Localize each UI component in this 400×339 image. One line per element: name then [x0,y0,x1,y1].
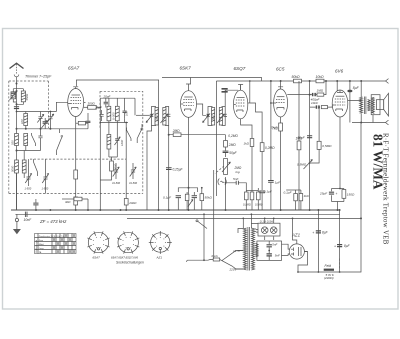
core bars [248,227,250,271]
screen network wire [178,188,197,192]
output transformer [350,81,371,123]
svg-text:Sockelschaltungen: Sockelschaltungen [116,261,144,265]
AZ1 output right [298,252,308,273]
AVC wire with 2M resistor [169,134,226,136]
resistor row AF [245,192,249,200]
wire plate tube5 top [336,81,338,91]
capacitor 400pF [312,93,316,96]
wire tube4 grid [271,102,274,104]
TA input jack [218,179,226,186]
wire osc row1 bottom [100,118,128,122]
osc padding caps [124,107,126,119]
coil secondary [163,108,166,126]
tube V4 6C5 [274,87,288,119]
svg-text:127V: 127V [233,249,241,253]
svg-text:0,1µF: 0,1µF [264,190,273,194]
junction dots psu [318,271,320,273]
lower cluster coils [15,160,19,173]
svg-text:500: 500 [155,115,159,120]
secondary winding [368,100,371,111]
ground terminal [15,218,18,221]
coil primary [155,108,158,126]
capacitor 0.1uF at left bus [35,206,37,211]
wire speaker return [372,115,374,123]
oscillator coil 2 [115,106,119,121]
svg-text:0,1µF: 0,1µF [284,190,293,194]
tone potentiometer [304,160,313,170]
AZ1 cathode up [293,218,297,244]
antenna coil 550 [21,91,25,102]
svg-text:0,5MΩ: 0,5MΩ [297,163,307,167]
heater capacitor 1 [267,244,272,247]
coupling capacitor 5nF [236,181,238,185]
svg-text:6SA7: 6SA7 [93,255,101,259]
speaker frame box [371,95,380,115]
svg-text:0,5MΩ: 0,5MΩ [322,144,332,148]
wave switch osc [137,124,142,143]
svg-text:31-500: 31-500 [112,181,121,185]
ground bus 2 [15,213,339,215]
antenna section dashed box [9,81,49,194]
rectifier AZ1 [288,244,308,259]
svg-text:6SQ7: 6SQ7 [234,66,246,71]
svg-text:550: 550 [11,140,15,145]
svg-text:6SA7: 6SA7 [68,66,80,71]
svg-text:(240Ω): (240Ω) [324,276,334,280]
svg-text:100: 100 [125,111,129,116]
svg-text:+: + [334,245,336,249]
padder trimmer 1 [25,159,32,190]
svg-text:0,25µF: 0,25µF [173,167,184,171]
tube V3 6SQ7 [233,85,249,122]
cone [384,93,389,116]
svg-text:31-500: 31-500 [129,181,138,185]
IF transformer 1 [146,107,170,126]
oscillator coil row2 [107,135,111,150]
wire IF2 center down [215,81,217,196]
svg-text:0,1MΩ: 0,1MΩ [243,203,251,207]
resistor 0.2M [224,141,228,148]
ground bus 1 [11,209,340,211]
electrolytic 50uF [307,135,312,138]
svg-text:Trimmer 7–25pF: Trimmer 7–25pF [25,75,52,79]
resistor 150 [342,190,346,199]
PSU bottom bus [298,123,361,273]
trimmer arrow [217,114,225,123]
wire secondary bracket [222,107,226,126]
svg-text:1-500: 1-500 [25,187,32,191]
antenna coil with trimmer arrow [11,92,16,99]
trimmer arrow [203,114,211,123]
svg-text:+: + [336,192,338,196]
svg-text:0,2MΩ: 0,2MΩ [265,146,275,150]
capacitor 0.1uF [176,195,181,198]
core bars [364,97,366,115]
svg-text:25µF: 25µF [319,192,328,196]
resistor 4k bottom [299,194,303,201]
wire tube3 cap stem [240,85,242,91]
svg-text:1200: 1200 [120,139,124,146]
capacitor small row [43,121,48,123]
junction dots bus1 left [35,209,37,211]
wire B+ to primary [360,81,362,97]
rail end connector [386,79,389,84]
svg-text:220V: 220V [229,268,238,272]
svg-text:100: 100 [20,119,24,124]
capacitor secondary [167,114,170,116]
tube socket 3 [149,231,172,259]
capacitor 0.25uF [166,167,172,170]
volume potentiometer [224,159,228,175]
dashed bottom edge [9,193,143,195]
HV center tap vertical [250,214,252,223]
secondary winding [251,228,254,270]
tube socket 1 [87,231,109,259]
transformer top feeds [243,224,258,229]
svg-text:2MΩ: 2MΩ [228,143,236,147]
tube1 cathode wire [75,119,77,210]
svg-text:20kΩ: 20kΩ [128,201,137,205]
tube4 cathode [280,119,282,210]
power switch link [213,170,215,259]
IF transformer 2 [203,107,228,126]
svg-text:81 W/MA: 81 W/MA [371,134,386,190]
svg-text:10nF: 10nF [24,218,33,222]
tube V1 6SA7 [68,87,86,119]
wire left box bottom [16,194,18,211]
electrolytic 8uF at output [347,81,359,123]
power transformer [229,227,255,272]
ground bus 3 [127,217,361,219]
row2 trimmer [116,123,118,149]
coil primary [212,108,215,126]
wire IF1 secondary return [168,126,170,211]
oscillator coil 1 [107,106,111,121]
resistor 2k to bus [74,197,78,205]
wire IF1 center down [158,106,160,210]
svg-text:50pF: 50pF [229,151,237,155]
svg-text:10nF: 10nF [311,101,319,105]
svg-text:Drucktasten 1 2 3 4 5 6 7 8: Drucktasten 1 2 3 4 5 6 7 8 [39,235,65,238]
top rail grid tube1 [76,80,159,86]
antenna feed wire [16,81,18,210]
svg-text:50kΩ: 50kΩ [292,75,300,79]
wire grid tube5 [310,81,333,107]
wire down [225,135,227,210]
svg-text:0,1µF: 0,1µF [163,196,172,200]
field coil Feld [324,269,334,271]
wire screen row [286,189,301,191]
switch contact row1 [32,133,36,146]
tuning gang capacitor 1 [47,112,54,129]
heater winding [256,244,259,257]
resistor 10kOhm on rail [316,79,324,83]
svg-text:Mittel: Mittel [39,243,45,246]
wire upper row [17,102,68,111]
svg-text:5nF: 5nF [275,253,280,257]
band trimmer capacitor [38,112,42,129]
speaker [371,93,388,122]
osc padder 2 [129,163,138,185]
svg-text:0,1A: 0,1A [212,254,218,258]
svg-text:ZF = 473 kHz: ZF = 473 kHz [39,219,67,224]
dial lamp 1 [261,227,268,234]
tube V5 6V6 [332,90,349,120]
capacitor 50pF [223,151,229,153]
top rail grid tube2 [162,78,262,84]
svg-text:1kΩ: 1kΩ [244,142,250,146]
ground arrow [13,229,21,234]
svg-text:6V6: 6V6 [335,69,344,74]
mains cord [186,259,213,261]
capacitor 250pF grid [222,88,228,93]
wire primary bracket [152,107,157,126]
resistor 50kOhm on rail [294,79,302,83]
resistor 0.5M grid [317,141,321,149]
oscillator section dashed box [100,91,143,193]
capacitor 25pF osc [100,110,104,121]
svg-text:50kΩ: 50kΩ [205,196,213,200]
resistor 2MOhm [173,133,181,137]
switch contact [188,200,193,207]
capacitor row2 [38,129,42,145]
wire rail to IF1 [158,80,160,106]
svg-text:550Ω: 550Ω [25,93,29,101]
mains switch blade [196,220,198,222]
approx symbol at lamp box [254,229,258,233]
svg-text:8µF: 8µF [353,86,360,90]
wire grid row [17,128,89,130]
capacitor antenna series [14,106,19,109]
dashed gang coupling line [30,158,126,160]
svg-text:4kΩ: 4kΩ [304,194,309,198]
tube3 cathode wire [241,121,252,185]
tube socket 2 [111,231,139,259]
primary winding [243,228,246,270]
osc padder 1 [112,163,121,185]
capacitor 0.1uF AF [259,191,265,194]
antenna [10,63,24,81]
svg-text:1MΩ: 1MΩ [317,89,324,93]
svg-text:U-500: U-500 [111,112,115,120]
oscillator lower wires [100,98,126,210]
coil secondary [219,108,222,126]
tube V2 6SK7 [181,84,199,120]
lamp box [258,218,280,241]
resistor right [200,194,204,201]
svg-text:0,5MΩ: 0,5MΩ [255,203,263,207]
grid leak column [309,107,311,210]
capacitor primary [150,114,154,116]
wire IF2 secondary to detector cap [225,90,238,106]
B+ top rail [216,80,385,82]
speaker return rail [352,120,389,125]
svg-text:+: + [312,231,314,235]
capacitor 10nF [316,105,320,108]
wire plate to primary [350,101,362,123]
field coil zigzag [372,97,375,113]
wire from IF1 primary [147,126,152,211]
oscillator top wire [100,98,135,115]
svg-text:Feld: Feld [325,264,332,268]
lower band coils [15,134,19,146]
svg-text:10kΩ: 10kΩ [316,75,324,79]
electrolytic 8uF psu2 [339,210,341,272]
svg-text:50µF: 50µF [298,135,306,139]
capacitor 10nF on bus2 [25,212,27,217]
svg-text:5nF: 5nF [272,242,277,246]
wire primary bracket [208,107,213,126]
resistor 1M AF2 [297,141,301,150]
wire tube3 plate [250,81,262,130]
svg-text:log.: log. [236,170,241,174]
capacitor 20pF osc input [105,98,107,107]
svg-text:0,1A 0,5A: 0,1A 0,5A [260,219,273,223]
primary taps [236,229,243,270]
wire secondary bracket [165,107,169,126]
svg-text:150Ω: 150Ω [347,193,355,197]
mains fuse [213,258,220,261]
trimmer arrow [146,114,154,123]
valve data table [35,234,77,254]
magnet box [376,100,383,110]
wire plate tube2 to IF2 [199,104,207,115]
transformer primary bottom to bus [242,218,244,228]
capacitor secondary [224,114,228,116]
wire tube4 top cap [280,81,282,87]
heater box [256,241,282,260]
wire AF row join [246,190,258,192]
coupling 1uF [268,180,274,183]
svg-text:AZ1: AZ1 [156,255,163,259]
resistor 50 bottom [294,194,298,201]
svg-text:6SA7,6SK7,6SQ7,6V6: 6SA7,6SK7,6SQ7,6V6 [111,255,139,259]
padder trimmer 2 [42,159,49,193]
svg-text:1-500: 1-500 [42,187,49,191]
primary winding [360,97,363,113]
svg-text:6C5: 6C5 [276,67,285,72]
electrolytic 8uF psu1 [317,210,319,272]
svg-text:0,2MΩ: 0,2MΩ [228,134,238,138]
grid2 resistor 300 [84,106,88,108]
capacitor primary [206,114,210,116]
trimmer arrow [161,114,169,123]
svg-text:25pF: 25pF [94,106,102,110]
detector column [222,134,242,211]
center wire [268,241,270,260]
dial lamp 2 [270,227,277,234]
svg-text:5000: 5000 [11,165,15,172]
dashed stub at psu [339,259,341,270]
svg-text:3kΩ: 3kΩ [65,200,71,204]
tube5 cathode network [332,120,344,211]
junction dots on B+ rail [336,80,338,82]
wire plate tube1 to IF1 [136,114,150,116]
switch blade [220,259,244,269]
svg-text:500: 500 [211,115,215,120]
resistor 2k osc [110,161,114,171]
wire tube4 plate coupling [288,94,312,96]
resistor 2k mid bottom [62,198,74,200]
tube2 cathode wire [188,120,190,210]
electrolytic 25uF [329,192,334,195]
band coil 100 [24,114,28,126]
selector vertical [203,214,205,260]
cathode resistor tube1 [74,170,78,179]
heater capacitor 2 [267,253,272,256]
resistor 1M horizontal [317,93,324,96]
switch contacts osc [127,128,132,142]
svg-text:7kΩ: 7kΩ [272,126,278,130]
resistor 5k [321,106,327,109]
wave switch arrow [57,129,63,155]
resistor 0.2M AF [260,143,264,152]
wires to AZ1 anodes [282,244,290,255]
svg-text:2MΩ: 2MΩ [172,129,180,133]
resistor 50k [185,194,189,200]
svg-text:Wellenbereich: Wellenbereich [36,239,38,253]
capacitor small [192,195,197,198]
selector blade upper [222,251,243,261]
svg-text:6SK7: 6SK7 [180,66,192,71]
